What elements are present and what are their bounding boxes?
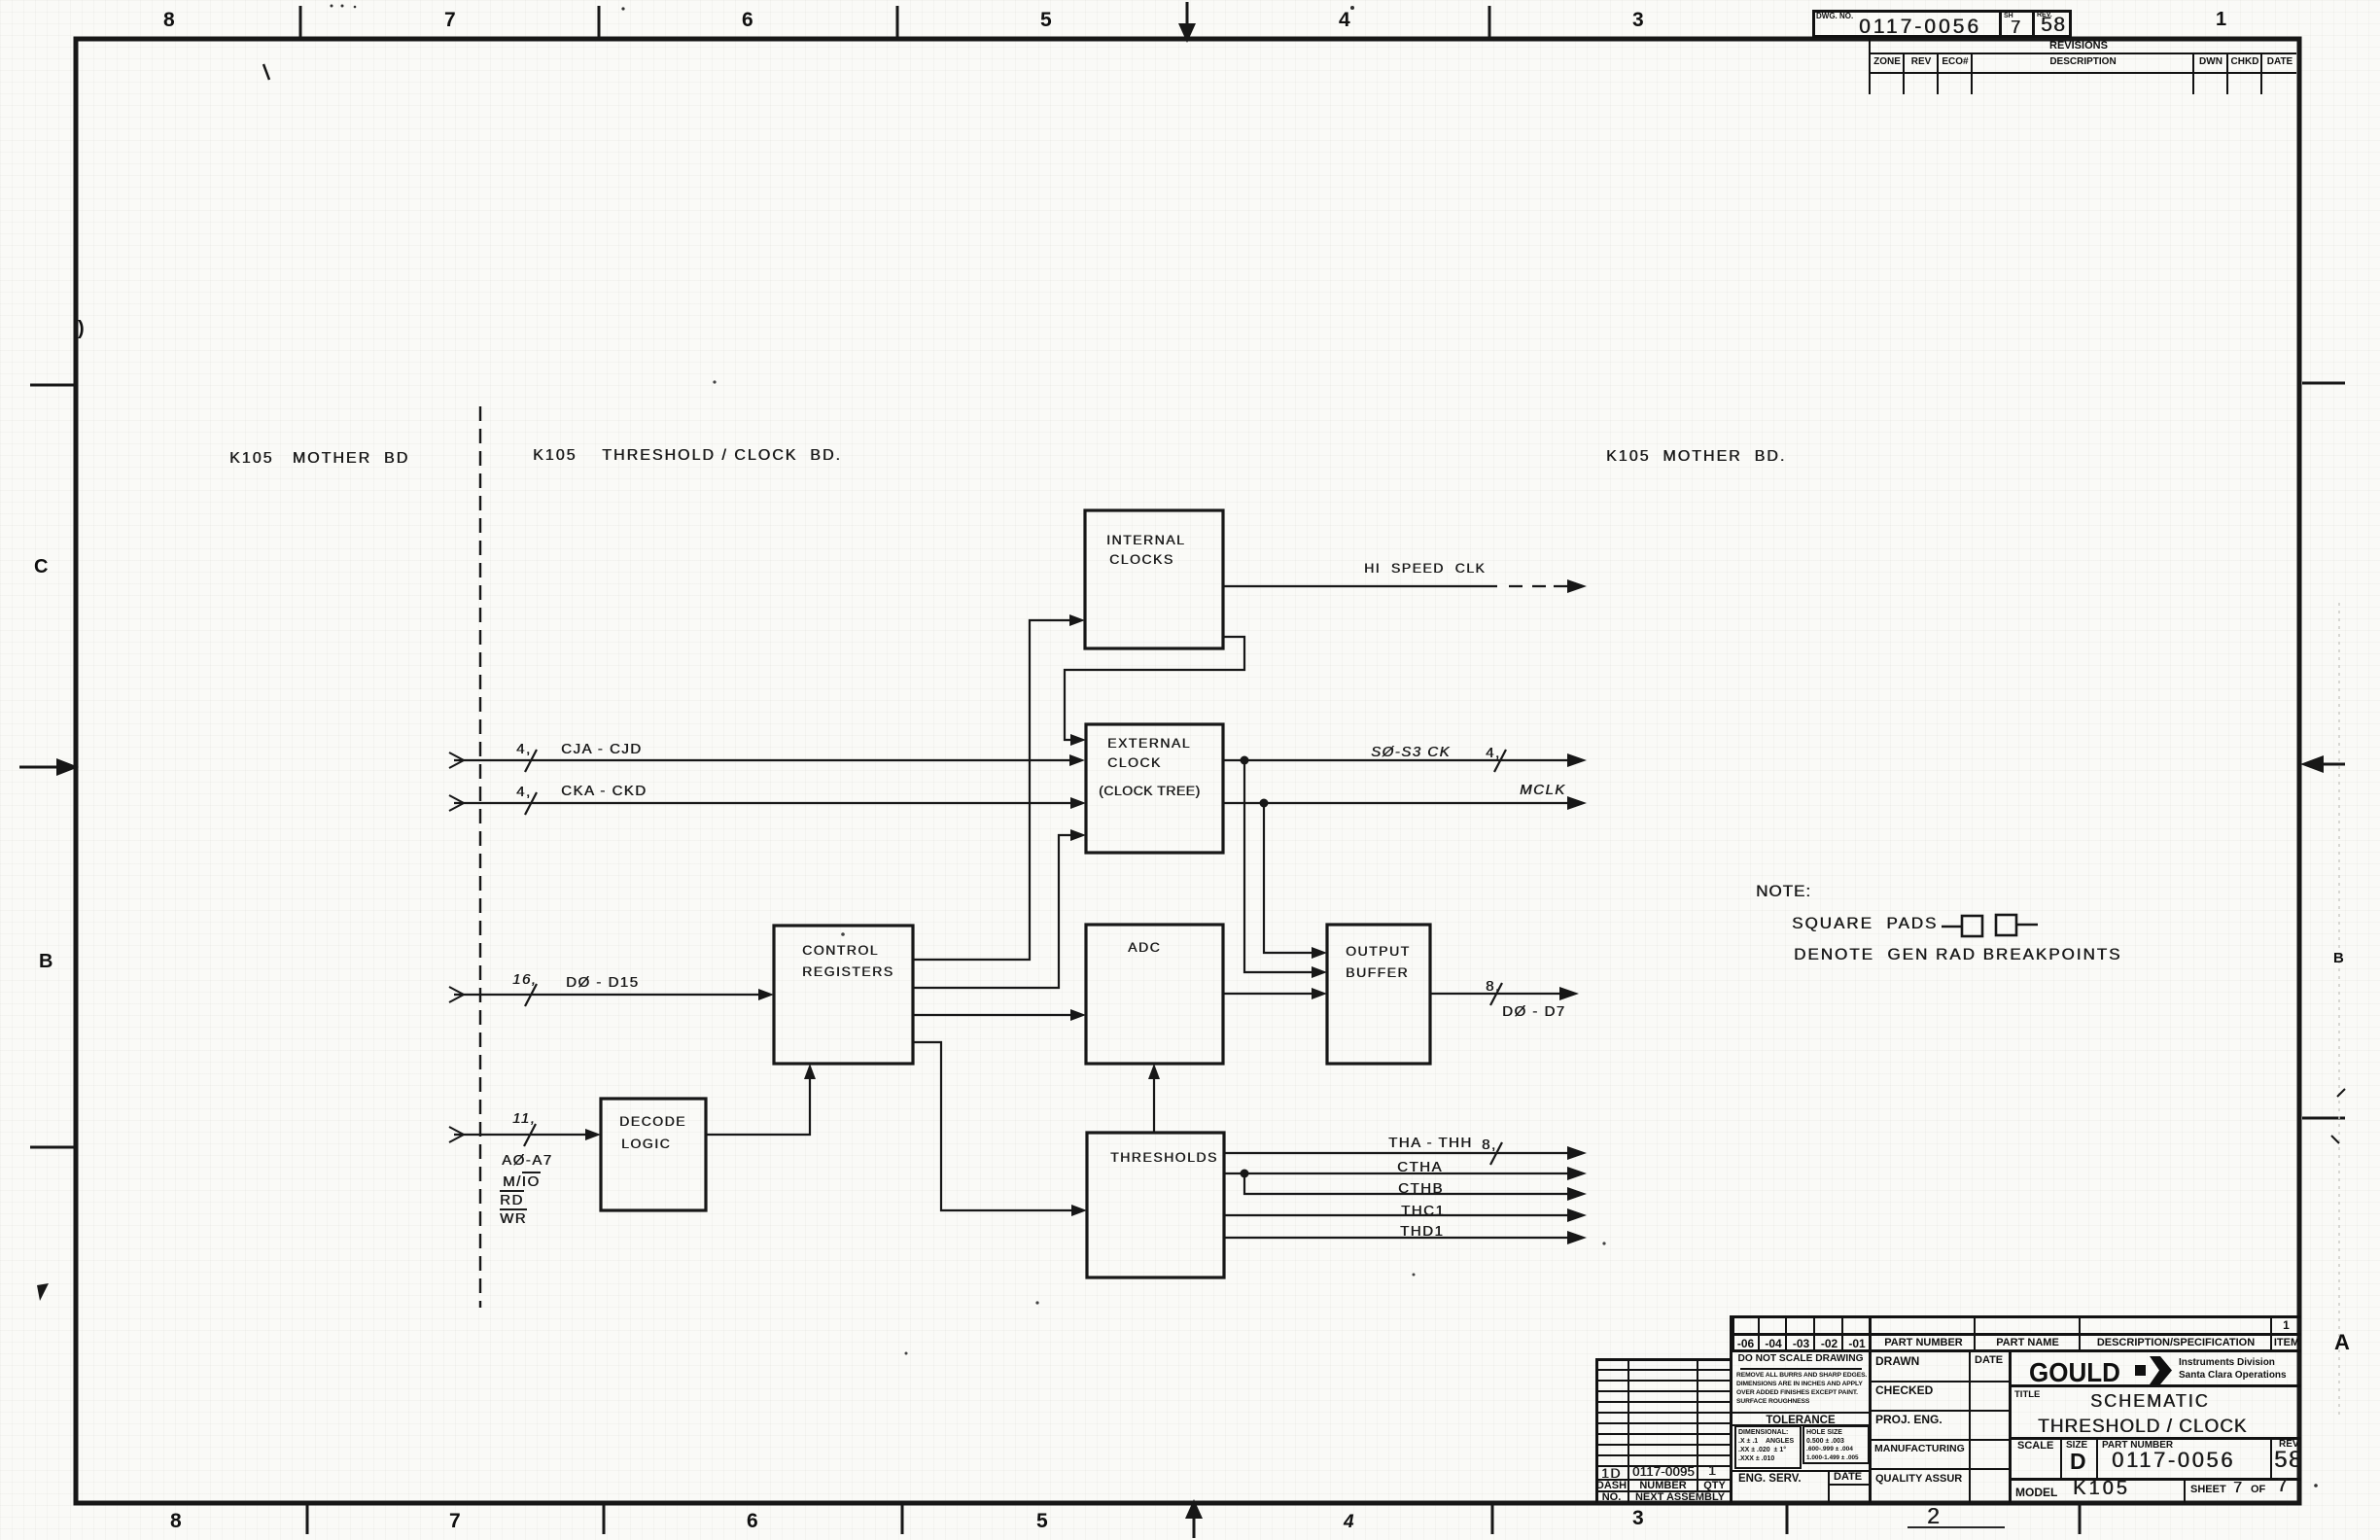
zone tick bottom 8/7 [306,1503,309,1534]
wire CTHA output [1224,1172,1569,1174]
wire D0-D15 bus into CONTROL REGISTERS [454,994,761,996]
zone number 8 top [163,10,175,30]
dashed board separator line [479,406,481,1308]
zone tick bottom 6/5 [901,1503,904,1534]
revisions table [1869,37,1871,94]
wire CKA-CKD bus into EXTERNAL CLOCK [454,802,1072,804]
label D0-D7 [1502,1004,1566,1019]
wire CTHB output [1244,1173,1569,1194]
zone center arrow right [2324,763,2345,766]
wire MCLK output [1223,802,1569,804]
label THC1 [1401,1204,1445,1218]
junction CTHA node [1241,1170,1249,1178]
model sheet row [2010,1478,2301,1481]
scan speck marks [263,64,269,80]
label WR [500,1211,527,1226]
zone tick top 8/7 [299,6,302,37]
text OUTPUT BUFFER [1346,944,1411,958]
label A0-A7 [502,1153,553,1168]
label 4 CJA-CJD [516,742,532,756]
label S0-S3 CK [1371,745,1451,759]
zone number 6 bottom [747,1511,758,1531]
wire S0-S3 CK output [1223,759,1569,761]
zone number 2 bottom handwritten [1927,1505,1941,1527]
zone tick left B/A [30,1146,74,1149]
zone tick top 4/3 [1488,6,1491,37]
gould logo block [2009,1351,2012,1503]
note text [1756,883,1811,899]
zone letter D left [78,319,85,338]
label 8 on THA [1482,1137,1497,1152]
zone tick bottom 7/6 [603,1503,606,1534]
zone center arrow left [19,766,56,769]
zone number 4 bottom [1344,1513,1354,1531]
junction MCLK node [1260,799,1269,808]
label RD [500,1193,524,1207]
zone letter B left [39,952,52,971]
zone center arrow top [1186,2,1189,27]
gould logo arrow [2135,1365,2146,1376]
wire CONTROL REGISTERS to EXTERNAL CLOCK [913,835,1073,988]
wire CONTROL REGISTERS to INTERNAL CLOCKS [913,620,1072,960]
wire CONTROL REGISTERS to ADC [913,1014,1073,1016]
zone number 6 top [742,10,753,30]
zone center arrow bottom [1193,1515,1196,1538]
label 8 on D0-D7 [1486,979,1501,994]
block OUTPUT BUFFER [1327,925,1430,1064]
zone tick bottom 4/3 [1491,1503,1494,1534]
next assembly entry 1D 0117-0095 1 [1601,1466,1622,1480]
zone number 7 top [444,10,456,30]
zone number 4 top [1339,10,1350,30]
zone tick bottom 3/2 [1786,1503,1789,1534]
zone letter A right [2334,1332,2350,1353]
block CONTROL REGISTERS [774,926,913,1064]
fold mark line right [2338,603,2340,1419]
parts list header table [1732,1315,2301,1318]
zone letter C left [34,557,48,577]
text INTERNAL CLOCKS [1106,533,1185,546]
wire S0-S3 tap to OUTPUT BUFFER [1244,760,1314,972]
wire THA-THH output [1224,1152,1569,1154]
wire CJA-CJD bus into EXTERNAL CLOCK [454,759,1072,761]
zone tick right B/A [2302,1117,2345,1120]
wire HI SPEED CLK output [1223,585,1497,587]
zone number 1 top [2216,10,2226,29]
text CONTROL REGISTERS [802,943,879,957]
label CTHB [1398,1181,1444,1196]
block DECODE LOGIC [601,1099,706,1210]
tolerance block [1732,1416,1870,1427]
text ADC [1128,940,1161,954]
block ADC [1086,925,1223,1064]
wire CONTROL REGISTERS to THRESHOLDS [913,1042,1074,1210]
rev handwritten 58 [2041,15,2066,35]
approval rows [1869,1315,1872,1503]
title row [2014,1390,2040,1400]
label THD1 [1400,1224,1444,1239]
do not scale drawing block [1732,1349,2301,1352]
label CTHA [1397,1160,1443,1174]
dwg number box [1812,10,2072,38]
zone number 5 top [1040,10,1052,30]
block INTERNAL CLOCKS [1085,510,1223,648]
next assembly table [1595,1358,1732,1361]
label K105 MOTHER BD left [229,451,409,467]
label THA-THH [1388,1136,1473,1150]
label K105 MOTHER BD right [1606,449,1786,465]
block EXTERNAL CLOCK (CLOCK TREE) [1086,724,1223,853]
zone number 8 bottom [170,1511,182,1531]
label K105 THRESHOLD/CLOCK BD [533,448,842,464]
dwg number handwritten 0117-0056 [1859,17,1981,37]
zone number 3 bottom [1632,1508,1644,1528]
item 1 entry [2271,1319,2301,1331]
block THRESHOLDS [1087,1133,1224,1277]
label M/IO [503,1174,541,1189]
wire DECODE LOGIC to CONTROL REGISTERS [706,1076,810,1135]
zone number 3 top [1632,10,1644,30]
wire INTERNAL CLOCKS to EXTERNAL CLOCK loop [1065,637,1244,740]
junction S0-S3 node [1241,756,1249,765]
zone letter B right [2333,951,2344,965]
scale size part number rev row [2010,1437,2301,1440]
text EXTERNAL CLOCK [1107,736,1191,750]
note square pad symbol [1942,926,1962,927]
label MCLK [1520,783,1566,797]
label 11 address [512,1111,536,1126]
zone letter A left mark [33,1281,58,1307]
text DECODE LOGIC [619,1114,686,1128]
label 4 CKA-CKD [516,785,532,799]
text THRESHOLDS [1110,1150,1218,1164]
zone tick left D/C [30,384,74,387]
zone tick top 6/5 [896,6,899,37]
wire address bus into DECODE LOGIC [454,1134,588,1136]
label HI SPEED CLK [1364,561,1486,575]
zone tick right D/C [2302,382,2345,385]
wire ADC to OUTPUT BUFFER [1223,993,1314,995]
label 16 D0-D15 [512,972,537,987]
dash headers [1732,1338,1760,1349]
wire THD1 output [1224,1237,1569,1239]
zone number 5 bottom [1036,1511,1048,1531]
label 4 on S0-S3 [1486,746,1501,760]
eng serv row [1732,1470,1870,1472]
wire MCLK tap to OUTPUT BUFFER [1264,803,1314,953]
wire THC1 output [1224,1214,1569,1216]
sheet number handwritten 7 [2011,18,2022,36]
wire THRESHOLDS to ADC [1153,1076,1155,1133]
zone number 7 bottom [449,1511,461,1531]
zone tick top 7/6 [598,6,601,37]
zone tick bottom 2/1 [2079,1503,2082,1534]
wire D0-D7 output [1430,993,1561,995]
